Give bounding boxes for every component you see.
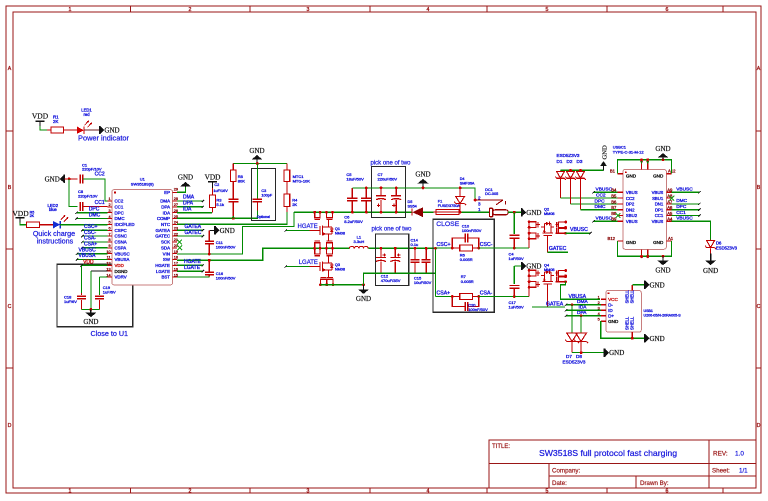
net label HGATE (U1) xyxy=(184,259,202,265)
wire net HGATE stub (U1) xyxy=(177,264,204,266)
power flag VDD (quick charge) xyxy=(12,209,34,222)
svg-text:1: 1 xyxy=(69,7,72,13)
net label LGATE (U1) xyxy=(184,265,201,271)
junction D7 riser xyxy=(571,303,574,306)
svg-text:D-: D- xyxy=(608,302,613,307)
wire D7 D8 gnd bus xyxy=(572,351,604,354)
svg-text:DPC: DPC xyxy=(115,210,124,215)
svg-text:VBUSC: VBUSC xyxy=(115,251,130,256)
diode D7 xyxy=(565,305,579,353)
net label CSC+ xyxy=(437,242,451,248)
box Optional C3 xyxy=(251,169,275,221)
Q4 drain caps xyxy=(528,269,538,297)
svg-text:0.005R: 0.005R xyxy=(460,257,473,262)
svg-text:GATEC: GATEC xyxy=(549,246,567,252)
resistor R5 xyxy=(27,222,40,228)
svg-text:DGND: DGND xyxy=(115,269,128,274)
svg-text:B12: B12 xyxy=(608,236,616,241)
svg-text:DN1: DN1 xyxy=(655,202,664,207)
wire net DPC (U1 pin3) xyxy=(75,212,107,214)
wire net LGATE to Q3 gate xyxy=(285,265,320,267)
svg-text:GND: GND xyxy=(653,173,664,178)
title block xyxy=(489,440,756,488)
svg-text:1: 1 xyxy=(69,489,72,495)
svg-text:D2: D2 xyxy=(567,159,573,164)
diode D4 SMF36A (TVS) xyxy=(454,177,475,212)
no-connect X B8 xyxy=(616,213,621,218)
net label VDD (red) xyxy=(83,259,94,265)
svg-text:VDD: VDD xyxy=(12,209,29,218)
svg-text:2: 2 xyxy=(189,489,192,495)
svg-text:GND: GND xyxy=(609,349,624,357)
wire net DMA stub xyxy=(177,200,204,202)
net label CC1 xyxy=(95,200,105,206)
wire output caps gnd return xyxy=(364,273,436,285)
svg-text:EP: EP xyxy=(164,190,170,195)
Q2 source caps xyxy=(555,221,567,235)
svg-text:blue: blue xyxy=(49,207,58,212)
junction D8 riser xyxy=(580,314,583,317)
svg-text:VBUSA: VBUSA xyxy=(115,257,130,262)
svg-text:CSA-: CSA- xyxy=(480,291,493,297)
svg-text:HGATE: HGATE xyxy=(298,224,318,230)
svg-text:TITLE:: TITLE: xyxy=(492,444,510,450)
svg-text:A1: A1 xyxy=(668,236,674,241)
wire USBC1 top gnd net xyxy=(618,158,672,173)
ground flag (U1 EP) xyxy=(178,174,193,187)
svg-text:Date:: Date: xyxy=(552,480,567,487)
ground flag in Close to U1 box xyxy=(83,309,98,326)
net label DMA (U1) xyxy=(183,195,195,201)
ground flag (top rail) xyxy=(415,171,430,190)
capacitor C20 xyxy=(452,297,488,313)
net label IDA (U1) xyxy=(183,206,192,212)
svg-text:DMC: DMC xyxy=(676,198,687,204)
net label VBUSC (Q2) xyxy=(570,227,588,233)
net label DPA (USB1) xyxy=(577,310,587,316)
junction VIN-C11 xyxy=(208,253,211,256)
text pick one of two (input) xyxy=(371,160,412,166)
text D7 D8 ESD5Z3V3 xyxy=(563,354,586,365)
svg-text:U206-05/N-20RA005-S: U206-05/N-20RA005-S xyxy=(644,313,682,317)
svg-text:CC2: CC2 xyxy=(626,196,635,201)
ground flag (C17) xyxy=(522,262,542,271)
svg-text:CSC-: CSC- xyxy=(480,242,493,248)
svg-text:HGATE: HGATE xyxy=(155,263,170,268)
USBC1 right pins xyxy=(652,188,673,224)
wire CSC- to Q2 xyxy=(514,247,529,249)
net label VBUSC (B4) xyxy=(596,186,613,192)
caps at Q3 source xyxy=(319,277,334,286)
wire net VBUSC A9 xyxy=(672,191,701,193)
svg-text:VBUS: VBUS xyxy=(626,190,638,195)
capacitor C15 xyxy=(414,248,432,285)
svg-text:Sheet:: Sheet: xyxy=(712,468,730,475)
svg-text:VBUSC: VBUSC xyxy=(570,227,588,233)
box pick-one C7 xyxy=(372,167,406,218)
junctions bottom input rail caps xyxy=(351,211,398,214)
svg-text:TYPE-C-31-M-12: TYPE-C-31-M-12 xyxy=(613,149,645,154)
svg-text:5.1k: 5.1k xyxy=(216,202,224,207)
gnd rail above R8/MTC1 xyxy=(233,163,287,165)
Q4 source caps xyxy=(555,269,567,283)
transistor Q4 xyxy=(537,263,555,284)
svg-text:3: 3 xyxy=(478,201,481,206)
svg-text:NM08: NM08 xyxy=(335,232,345,236)
diode D6 ESD5Z3V3 xyxy=(705,240,738,254)
svg-text:100nF/50V: 100nF/50V xyxy=(462,228,482,233)
capacitor C14 xyxy=(411,237,420,273)
wire net IDA to R3 bottom xyxy=(177,212,212,214)
svg-text:DN2: DN2 xyxy=(626,207,635,212)
wire R1 to LED1 xyxy=(64,129,78,131)
diode D1 xyxy=(555,172,566,180)
svg-text:LGATE: LGATE xyxy=(156,269,170,274)
svg-text:GND: GND xyxy=(655,266,670,274)
svg-text:instructions: instructions xyxy=(37,236,74,245)
svg-text:1/1: 1/1 xyxy=(739,468,748,475)
snubber caps at Q1 drain xyxy=(313,211,334,220)
junction DC pin2 xyxy=(474,199,477,202)
junction node CC caps gnd xyxy=(68,178,71,181)
wire CSA- out of box xyxy=(479,296,515,298)
wire net VDD (U1 pin12) xyxy=(80,264,107,266)
svg-text:USB1: USB1 xyxy=(644,309,653,313)
no-connect X SDA xyxy=(177,245,182,250)
svg-text:MTG-10K: MTG-10K xyxy=(293,179,311,184)
svg-text:100pF: 100pF xyxy=(261,193,272,197)
svg-text:CLOSE: CLOSE xyxy=(436,221,460,228)
resistor R6 0.005R xyxy=(452,245,478,262)
svg-text:1uF/6V: 1uF/6V xyxy=(103,289,116,294)
wire net CSA+ (U1 pin 9) xyxy=(81,247,107,249)
svg-text:GND: GND xyxy=(703,267,718,275)
resistor R7 0.005R xyxy=(452,274,478,299)
transistor Q1 xyxy=(320,224,345,237)
box pick-one output caps xyxy=(376,234,409,286)
wire net DMC (U1 pin4) xyxy=(75,217,107,219)
svg-text:CSC+: CSC+ xyxy=(437,242,451,248)
net label CSC- xyxy=(84,230,97,236)
svg-text:B: B xyxy=(8,185,12,191)
svg-text:VBUSA: VBUSA xyxy=(79,253,97,259)
LED LED2 (blue) xyxy=(48,203,69,229)
svg-text:Q4: Q4 xyxy=(544,263,549,267)
ground flag (DC input) xyxy=(522,208,542,217)
wire caps bottoms to gnd node xyxy=(82,300,100,310)
text Power indicator xyxy=(78,134,129,143)
svg-text:1: 1 xyxy=(108,197,110,201)
wire net HGATE to Q1 gate xyxy=(285,229,320,231)
wire net GATEC (Q2 gate) xyxy=(548,235,568,252)
transistor Q2 xyxy=(537,208,555,236)
net label CC1 (A5) xyxy=(676,210,686,216)
wire shell bottom and pin5 to gnd xyxy=(601,321,645,339)
svg-text:5: 5 xyxy=(598,318,600,322)
wire net VBUSC B4 xyxy=(592,191,623,193)
capacitor C18 xyxy=(64,294,86,303)
svg-text:B: B xyxy=(757,185,761,191)
svg-text:B4: B4 xyxy=(611,188,617,193)
svg-text:pick one of two: pick one of two xyxy=(371,160,412,166)
net label CC2 xyxy=(95,172,105,178)
svg-text:VDD: VDD xyxy=(115,263,124,268)
capacitor C10 xyxy=(452,223,481,248)
svg-text:4: 4 xyxy=(427,7,430,13)
junctions ESD bus xyxy=(569,169,582,172)
svg-text:10uF/50V: 10uF/50V xyxy=(414,280,432,285)
svg-text:C: C xyxy=(757,304,761,310)
junction gnd node in box xyxy=(90,308,93,311)
svg-text:220pF/10V: 220pF/10V xyxy=(78,193,98,198)
diode D2 xyxy=(565,172,576,180)
wire GND to C1 and node xyxy=(64,178,77,180)
wire shell top to gnd xyxy=(632,284,645,286)
svg-text:0.1u: 0.1u xyxy=(411,242,419,247)
transistor Q3 xyxy=(320,260,345,273)
svg-text:1: 1 xyxy=(598,296,600,300)
svg-text:3: 3 xyxy=(307,7,310,13)
svg-text:VBUSC: VBUSC xyxy=(596,186,613,192)
wire VBUS top rail xyxy=(352,188,475,200)
net label LGATE (Q3) xyxy=(299,260,318,266)
svg-text:SBU2: SBU2 xyxy=(626,213,638,218)
svg-text:D: D xyxy=(757,423,761,429)
net label CSA+ xyxy=(84,242,97,248)
svg-text:VBUSC: VBUSC xyxy=(676,186,693,192)
svg-text:LGATE: LGATE xyxy=(184,265,201,271)
svg-text:D7: D7 xyxy=(566,354,572,359)
capacitor C4 xyxy=(509,212,524,261)
capacitor C7 B xyxy=(391,188,401,212)
svg-text:CC1: CC1 xyxy=(655,213,664,218)
svg-text:1uF/50V: 1uF/50V xyxy=(509,304,524,309)
svg-text:Company:: Company: xyxy=(552,468,580,475)
wire LED1 to GND xyxy=(84,129,100,131)
diode D3 xyxy=(575,172,586,180)
wire R3 bottom to IDA wire xyxy=(212,208,214,213)
svg-text:4: 4 xyxy=(108,215,110,219)
ground flag (D7 D8) xyxy=(605,348,625,357)
svg-text:GND: GND xyxy=(650,335,665,343)
svg-text:GND: GND xyxy=(626,173,637,178)
svg-text:ID: ID xyxy=(608,308,613,313)
svg-text:DPA: DPA xyxy=(161,204,170,209)
svg-text:3.3uH: 3.3uH xyxy=(354,239,365,244)
svg-text:DMA: DMA xyxy=(160,199,170,204)
svg-text:GND: GND xyxy=(655,145,670,153)
U1 right pins 15-29 xyxy=(155,188,178,280)
svg-text:C2: C2 xyxy=(214,183,219,187)
svg-text:100nF/50V: 100nF/50V xyxy=(468,307,488,312)
wire F1 to DC1 xyxy=(462,211,490,213)
svg-text:IDA: IDA xyxy=(163,210,170,215)
svg-text:CSA+: CSA+ xyxy=(437,291,451,297)
wire VDD to C18 xyxy=(81,265,83,295)
wire net CSC+ (U1 pin 6) xyxy=(81,229,107,231)
svg-text:GATEC: GATEC xyxy=(155,234,170,239)
capacitor C16 xyxy=(205,260,236,280)
svg-text:DP2: DP2 xyxy=(626,202,635,207)
svg-text:SS54: SS54 xyxy=(408,204,417,208)
svg-text:Q1: Q1 xyxy=(335,227,340,231)
svg-text:19: 19 xyxy=(174,250,178,254)
net label VBUSC (left) xyxy=(79,247,97,253)
wire net COMP rail xyxy=(177,210,257,218)
svg-text:8.2uF/50V: 8.2uF/50V xyxy=(344,219,363,224)
wire net VBUSC B9 xyxy=(592,220,623,222)
capacitor C12 A xyxy=(376,248,386,273)
wire net VIN xyxy=(177,212,294,254)
svg-text:VCC: VCC xyxy=(608,297,618,302)
svg-text:4: 4 xyxy=(427,489,430,495)
svg-text:CC2: CC2 xyxy=(115,199,124,204)
svg-text:GND: GND xyxy=(83,318,98,326)
wire net CC1 A5 xyxy=(672,214,701,216)
svg-text:VBUSA: VBUSA xyxy=(569,294,587,300)
net label GATEC (Q2) xyxy=(549,246,567,252)
capacitor C12 B xyxy=(381,248,401,283)
svg-text:SDA: SDA xyxy=(161,245,170,250)
net label CSC- xyxy=(480,242,493,248)
svg-text:VBUS: VBUS xyxy=(626,219,638,224)
svg-text:A: A xyxy=(8,66,12,72)
svg-text:18uF/50V: 18uF/50V xyxy=(346,177,364,182)
junction gnd rail xyxy=(362,283,365,286)
svg-text:ESD5Z3V3: ESD5Z3V3 xyxy=(716,246,738,251)
wire net DMA (USB1) xyxy=(565,304,601,306)
svg-text:2K: 2K xyxy=(53,119,58,124)
wire SW rail to output caps xyxy=(368,247,435,249)
svg-text:D4: D4 xyxy=(460,177,465,181)
wire output node to CSA+ xyxy=(435,248,437,296)
capacitor C6 label xyxy=(344,214,363,224)
ground flag (ESD bus, rotated) xyxy=(600,145,608,170)
resistor R4 xyxy=(284,182,298,208)
svg-text:VDD: VDD xyxy=(32,112,49,121)
svg-text:2: 2 xyxy=(189,7,192,13)
svg-text:VDD: VDD xyxy=(205,172,221,181)
svg-text:IDA: IDA xyxy=(579,305,588,311)
junction CSA- C17 xyxy=(513,295,516,298)
USB1 shell pins xyxy=(624,285,634,339)
USBC1 bottom GND pins xyxy=(608,236,674,259)
junction D4 bottom xyxy=(459,211,462,214)
wire node down to C8 xyxy=(69,179,78,207)
svg-text:D: D xyxy=(8,423,12,429)
ground flag (USB1 shell bottom) xyxy=(645,334,665,343)
net label IDA (USB1) xyxy=(579,305,588,311)
net label GATEC (U1) xyxy=(185,230,202,236)
wire VDD to R5 xyxy=(20,223,26,225)
net label CSC+ xyxy=(84,224,98,230)
caps at SW node below xyxy=(313,247,334,256)
svg-text:GND: GND xyxy=(602,145,609,160)
svg-text:470uF/35V: 470uF/35V xyxy=(381,278,401,283)
svg-text:DMC: DMC xyxy=(89,212,101,218)
svg-text:CC2: CC2 xyxy=(596,193,606,199)
net label VBUSA (left) xyxy=(79,253,97,259)
text Quick charge instructions xyxy=(33,229,75,245)
net label DMC (USB-C) xyxy=(595,204,606,210)
resistor R3 xyxy=(210,188,224,208)
svg-text:D1: D1 xyxy=(557,159,563,164)
net label VBUSC (A4) xyxy=(676,216,693,222)
junctions R6 xyxy=(451,247,480,250)
svg-text:18: 18 xyxy=(174,256,178,260)
junction C4 top xyxy=(513,211,516,214)
wire net CSC- (U1 pin 7) xyxy=(81,235,107,237)
svg-text:7: 7 xyxy=(108,232,110,236)
ground flag (D6) xyxy=(703,254,718,275)
svg-text:D8: D8 xyxy=(576,354,582,359)
svg-text:IDC/FLED: IDC/FLED xyxy=(115,222,135,227)
caps at SW node above xyxy=(313,241,334,250)
capacitor C8 xyxy=(78,189,98,211)
svg-text:80K: 80K xyxy=(238,179,245,184)
svg-text:GND: GND xyxy=(220,227,235,235)
box CLOSE sense resistors xyxy=(433,219,494,312)
svg-text:C: C xyxy=(8,304,12,310)
wire D3 to DN2 row xyxy=(581,179,623,210)
svg-text:FUSE/3750A: FUSE/3750A xyxy=(438,204,461,208)
capacitor C3 xyxy=(253,164,273,211)
svg-text:BST: BST xyxy=(161,275,170,280)
svg-text:pick one of two: pick one of two xyxy=(372,227,413,233)
U1 left pins 1-14 xyxy=(106,197,134,279)
wire net VBUSC A4 to D6 xyxy=(672,221,711,239)
svg-text:CSNA: CSNA xyxy=(115,240,127,245)
net label DMA (USB1) xyxy=(577,299,588,305)
ground flag (CC caps) xyxy=(45,175,65,184)
svg-text:GND: GND xyxy=(526,209,541,217)
svg-text:Drawn By:: Drawn By: xyxy=(640,480,669,487)
svg-text:DMC: DMC xyxy=(115,216,125,221)
svg-text:220uF/50V: 220uF/50V xyxy=(378,177,398,182)
svg-text:VDRV: VDRV xyxy=(115,275,127,280)
wire net VBUSC (U1 pin10) xyxy=(76,252,108,254)
svg-text:5: 5 xyxy=(108,221,110,225)
svg-text:GND: GND xyxy=(249,147,264,155)
svg-text:6: 6 xyxy=(108,226,110,230)
wire net GATEA (Q4 gate) xyxy=(532,284,565,307)
svg-text:GND: GND xyxy=(45,176,60,184)
svg-text:100nF/50V: 100nF/50V xyxy=(216,244,236,249)
svg-text:8: 8 xyxy=(108,238,110,242)
svg-text:Q2: Q2 xyxy=(544,208,549,212)
net label DPC (USB-C) xyxy=(595,198,606,204)
svg-text:A: A xyxy=(757,66,761,72)
wire Q4 out to USB VCC xyxy=(560,282,600,300)
wire CSC+ into box xyxy=(436,247,453,249)
svg-text:SW: SW xyxy=(163,257,171,262)
wire C8 to U1 pin2 net CC1 xyxy=(83,206,107,208)
svg-text:GATEA: GATEA xyxy=(546,302,564,308)
wire D1 to CC2 row xyxy=(561,179,623,199)
svg-text:5: 5 xyxy=(546,7,549,13)
svg-text:GND: GND xyxy=(415,171,430,179)
svg-text:DPC: DPC xyxy=(676,204,687,210)
svg-text:1: 1 xyxy=(478,207,481,212)
net label GATEA (Q4) xyxy=(546,302,564,308)
svg-text:IDA: IDA xyxy=(183,206,192,212)
no-connect X A8 xyxy=(669,196,674,201)
wire DC1 to gnd flag xyxy=(508,211,522,213)
svg-text:9: 9 xyxy=(108,244,110,248)
svg-text:1uF/6V: 1uF/6V xyxy=(64,299,77,304)
svg-text:VIN: VIN xyxy=(163,251,170,256)
ground flag (USBC1 top) xyxy=(655,145,670,160)
